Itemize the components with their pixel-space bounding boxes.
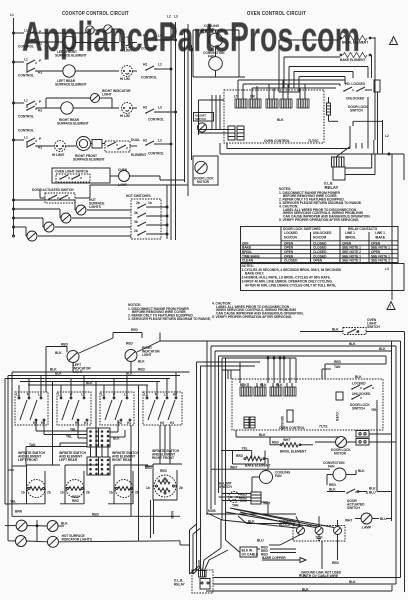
surface element left front (dashed circle): [20, 465, 60, 504]
svg-text:SURFACE ELEMENT: SURFACE ELEMENT: [57, 122, 89, 126]
svg-text:NO/CON: NO/CON: [284, 236, 298, 240]
svg-text:1b: 1b: [21, 491, 25, 495]
svg-text:OVEN: OVEN: [335, 412, 339, 422]
svg-text:L3: L3: [158, 34, 162, 38]
wire oven nested feeds to control box: [238, 80, 345, 92]
indicator light right (rung 3): [46, 89, 131, 108]
svg-text:CONTROL: CONTROL: [141, 76, 157, 80]
heating element bake: [284, 52, 372, 88]
svg-text:BLK: BLK: [55, 372, 62, 376]
svg-text:L2: L2: [158, 63, 162, 67]
oven lamp (bottom): [345, 513, 392, 530]
svg-text:L2: L2: [385, 134, 389, 138]
svg-text:SENSOR: SENSOR: [280, 416, 284, 430]
svg-text:BROIL ELEMENT: BROIL ELEMENT: [342, 41, 368, 45]
wire stubs switch boxes to bus: [19, 372, 176, 398]
svg-text:H2: H2: [173, 393, 177, 397]
wire wht bus: [211, 465, 330, 469]
svg-text:YEL: YEL: [66, 435, 72, 439]
svg-text:1b: 1b: [146, 486, 150, 490]
svg-text:L1: L1: [10, 13, 14, 17]
svg-text:H1: H1: [170, 421, 174, 425]
svg-text:3b: 3b: [134, 211, 138, 215]
svg-text:OV CABLE: OV CABLE: [242, 553, 259, 557]
wire hot-switch bus 1: [14, 200, 132, 210]
infinite switch label left front: [18, 451, 46, 462]
wire connector block link verticals: [91, 447, 109, 457]
svg-text:3. SERVICER PLEASE RETURN DIAG: 3. SERVICER PLEASE RETURN DIAGRAM TO RAN…: [128, 317, 211, 321]
svg-text:BLK: BLK: [138, 360, 145, 364]
svg-text:BROIL ELEMENT: BROIL ELEMENT: [280, 450, 306, 454]
svg-text:HI LIM: HI LIM: [120, 77, 130, 81]
svg-text:H1: H1: [127, 421, 131, 425]
door actuated switch (bottom): [327, 487, 392, 511]
hot surface indicator lights label: [62, 534, 93, 542]
svg-text:CLOSED: CLOSED: [284, 259, 298, 263]
svg-text:UNLOCKED: UNLOCKED: [313, 231, 332, 235]
notes list (top right): [279, 187, 371, 222]
switch control right side rung2 to L2: [141, 63, 172, 80]
svg-text:L3: L3: [158, 106, 162, 110]
wire hot switches right rail: [166, 185, 168, 239]
indicator light right (bottom): [125, 333, 160, 362]
svg-text:H1: H1: [84, 421, 88, 425]
switch control right side rung3 to L3: [143, 106, 177, 122]
indicator light left (bottom): [55, 333, 113, 375]
svg-text:BLK: BLK: [260, 383, 267, 387]
svg-text:TAN: TAN: [334, 365, 341, 369]
svg-text:BLU: BLU: [257, 539, 264, 543]
motor convection fan (bottom): [323, 461, 365, 492]
svg-text:H2: H2: [75, 421, 79, 425]
switch control left-rear (rung 2): [14, 58, 44, 78]
svg-text:CONTROL: CONTROL: [18, 74, 34, 78]
svg-text:SWITCH: SWITCH: [350, 109, 363, 113]
connector pins P1 (top oven control): [234, 92, 261, 108]
svg-text:BLK: BLK: [259, 433, 266, 437]
svg-text:SEE NOTE 3: SEE NOTE 3: [342, 259, 361, 263]
switch hi-limit right rear (rung 3): [120, 103, 137, 119]
wire hot-switch bus 3: [14, 218, 132, 227]
connector pin stack bottom oven control: [244, 417, 255, 428]
indicator light hot 4: [26, 227, 37, 241]
svg-text:CONTROL: CONTROL: [18, 115, 34, 119]
svg-text:RED: RED: [329, 483, 336, 487]
wire MOB label: [206, 502, 296, 524]
svg-text:BAKE ELEMENT: BAKE ELEMENT: [340, 58, 365, 62]
svg-text:LINE 1: LINE 1: [345, 231, 355, 235]
svg-text:MOB: MOB: [208, 509, 216, 513]
svg-text:OVEN: OVEN: [118, 168, 128, 172]
svg-text:UNLOCKED: UNLOCKED: [346, 97, 365, 101]
svg-text:ELEMENT: ELEMENT: [131, 153, 146, 157]
svg-text:LIGHT: LIGHT: [102, 93, 112, 97]
hot surface lights label: [89, 198, 105, 209]
warning triangle top: [390, 37, 398, 46]
heating element left front surface (rung 1): [43, 36, 119, 57]
oven nested wires: [289, 67, 368, 93]
svg-text:BLK: BLK: [277, 118, 284, 122]
svg-text:RED: RED: [332, 561, 339, 565]
svg-text:RED: RED: [334, 360, 341, 364]
svg-text:BLK: BLK: [86, 381, 93, 385]
wire inter-box verticals: [53, 360, 171, 541]
svg-text:RED: RED: [61, 343, 68, 347]
svg-text:RED: RED: [236, 454, 243, 458]
svg-text:H2: H2: [143, 34, 147, 38]
svg-text:FAN: FAN: [328, 465, 335, 469]
svg-text:COOKTOP CONTROL CIRCUIT: COOKTOP CONTROL CIRCUIT: [62, 11, 129, 17]
indicator light hot 1: [75, 200, 86, 215]
wire relay to L3: [385, 154, 404, 300]
svg-text:SWITCH: SWITCH: [195, 117, 206, 121]
svg-text:SEE NOTE 3: SEE NOTE 3: [371, 259, 390, 263]
wires lamps: [5, 513, 190, 546]
bare copper arrow: [262, 556, 306, 563]
svg-text:CONTROL: CONTROL: [18, 45, 34, 49]
svg-text:UNLOCKED: UNLOCKED: [352, 392, 371, 396]
indicator light hot 3: [43, 218, 54, 232]
svg-text:MOB: MOB: [170, 511, 174, 519]
svg-text:RED: RED: [126, 342, 133, 346]
junction dots on L1 rail: [13, 32, 15, 237]
wire relay feed verticals: [190, 362, 261, 574]
switch hi-limit right front (rung 4): [36, 141, 76, 158]
svg-text:MOTOR: MOTOR: [197, 180, 210, 184]
door lock motor (top): [193, 156, 218, 185]
svg-text:WHT: WHT: [230, 465, 237, 469]
svg-text:RED: RED: [138, 368, 145, 372]
svg-text:HI LIMIT: HI LIMIT: [120, 49, 132, 53]
svg-text:LOCKED: LOCKED: [284, 231, 298, 235]
switch control right side rung1 to L3: [141, 34, 177, 51]
wire switch bus lines: [5, 372, 190, 386]
svg-text:2b: 2b: [86, 491, 90, 495]
infinite switch box A: [15, 392, 48, 425]
svg-text:BARE COPPER: BARE COPPER: [262, 556, 286, 560]
svg-text:RELAY: RELAY: [325, 185, 339, 190]
svg-text:H1: H1: [41, 421, 45, 425]
connector block lower: [87, 457, 110, 475]
svg-text:71/7S: 71/7S: [319, 425, 328, 429]
svg-text:H2: H2: [143, 139, 147, 143]
svg-text:MOTOR: MOTOR: [334, 452, 347, 456]
svg-text:H2: H2: [143, 63, 147, 67]
svg-text:CONTROL: CONTROL: [141, 47, 157, 51]
connector pins P2 (top oven control): [266, 92, 292, 122]
motor convection fan 2: [209, 47, 223, 77]
svg-text:RED: RED: [72, 499, 79, 503]
svg-text:3b: 3b: [134, 220, 138, 224]
wire oven control to relay: [220, 97, 375, 154]
indicator light hot 2: [60, 209, 71, 223]
svg-text:YEL: YEL: [70, 428, 76, 432]
wires below terminal block: [257, 535, 339, 570]
svg-text:BLK: BLK: [276, 383, 283, 387]
connector pins P3 (top oven control): [297, 92, 309, 108]
hi-limit switch (oven top): [194, 113, 214, 133]
oven sensor label (bottom box): [280, 410, 339, 430]
infinite switch label left rear: [59, 451, 87, 462]
cable entry box (bottom): [240, 546, 296, 558]
svg-text:1b: 1b: [109, 491, 113, 495]
infinite switch label right rear: [112, 451, 140, 462]
door lock switch (bottom): [322, 360, 377, 492]
switch hi-limit left rear (rung 2): [120, 66, 137, 82]
svg-text:YEL: YEL: [242, 447, 248, 451]
heating element broil: [340, 35, 375, 44]
svg-text:HI LIM: HI LIM: [120, 114, 130, 118]
svg-text:DUAL: DUAL: [131, 138, 140, 142]
oven sensor connector (bottom): [222, 492, 261, 504]
wire BLK below oven control box: [236, 430, 340, 437]
wire left border verticals: [5, 371, 46, 541]
surface element right front dual (dashed circle): [146, 464, 183, 500]
svg-text:BLK: BLK: [126, 372, 133, 376]
hi-limit switch (bottom): [219, 482, 247, 508]
svg-text:71/7SC: 71/7SC: [308, 139, 319, 143]
heating element broil (bottom): [270, 437, 313, 454]
wire right bus verticals: [392, 332, 405, 593]
indicator light LF top row: [30, 26, 100, 34]
wire hot-switch bus 4: [14, 227, 132, 236]
capacitor component (top right): [327, 97, 331, 121]
svg-text:2b: 2b: [47, 491, 51, 495]
oven light switch box: [52, 168, 118, 183]
heating element right front dual (rung 4): [73, 137, 105, 162]
svg-text:SWITCH: SWITCH: [352, 407, 365, 411]
svg-text:BRN: BRN: [15, 510, 23, 514]
svg-text:L3: L3: [174, 15, 178, 19]
svg-text:OVEN CONTROL CIRCUIT: OVEN CONTROL CIRCUIT: [247, 11, 306, 17]
connector pins P5 vertical (top oven control): [228, 126, 244, 140]
svg-text:H2: H2: [33, 421, 37, 425]
relay D.L.B. (bottom): [174, 570, 213, 593]
svg-text:BLK: BLK: [349, 342, 356, 346]
infinite switch box D dual: [143, 392, 182, 425]
table door lock switches / relay contacts: [241, 227, 399, 263]
wire door lock drops (top right): [329, 92, 389, 154]
wire hot-switch bus 2: [14, 209, 132, 218]
svg-text:DR: DR: [250, 95, 255, 99]
terminal block (bottom): [207, 508, 345, 541]
svg-text:RED: RED: [131, 328, 138, 332]
connector block upper: [87, 428, 110, 447]
svg-text:LEFT FRONT: LEFT FRONT: [18, 458, 38, 462]
svg-text:/BROIL: /BROIL: [345, 236, 356, 240]
svg-text:H2: H2: [160, 421, 164, 425]
svg-text:!: !: [392, 40, 393, 46]
oven light switch (bottom): [300, 318, 405, 335]
svg-text:L1: L1: [24, 58, 28, 62]
svg-text:H2: H2: [118, 421, 122, 425]
svg-text:CONTROL: CONTROL: [148, 118, 164, 122]
wires into relay top: [190, 512, 241, 574]
svg-text:BLK: BLK: [379, 347, 386, 351]
svg-text:5. VERIFY PROPER OPERATION AFT: 5. VERIFY PROPER OPERATION AFTER SERVICI…: [212, 315, 292, 319]
svg-text:OVEN CONTROL: OVEN CONTROL: [264, 139, 290, 143]
motor cooling fan (bottom): [252, 469, 291, 492]
wire yel to bake: [221, 447, 252, 459]
door lock switch (top): [343, 80, 380, 113]
svg-text:2b: 2b: [136, 201, 140, 205]
infinite switch label right front: [152, 449, 180, 460]
svg-text:!: !: [390, 305, 391, 311]
svg-text:LEFT REAR: LEFT REAR: [59, 458, 78, 462]
notice text block: [128, 301, 304, 321]
svg-text:RED: RED: [240, 499, 247, 503]
door lock motor (bottom): [283, 437, 356, 456]
svg-text:1b: 1b: [148, 201, 152, 205]
svg-text:DOOR ACTUATED SWITCH: DOOR ACTUATED SWITCH: [32, 188, 74, 192]
wire below switches to connector: [26, 420, 125, 465]
switch control right side rung4 to L2: [143, 139, 172, 156]
svg-text:LT: LT: [234, 95, 238, 99]
connector pins bottom oven control: [240, 383, 296, 396]
svg-text:OVEN LIGHT SWITCH: OVEN LIGHT SWITCH: [55, 170, 89, 174]
wire L2 rail: [170, 22, 172, 240]
svg-text:HOT SWITCHES: HOT SWITCHES: [126, 194, 152, 198]
svg-text:CONTROL: CONTROL: [18, 129, 34, 133]
svg-text:L1: L1: [24, 99, 28, 103]
svg-text:BLK: BLK: [299, 574, 306, 578]
motor cooling fan top: [167, 15, 222, 47]
hot surface indicator lamps (bottom): [16, 520, 27, 531]
hot switches box: [126, 194, 167, 239]
svg-text:2b: 2b: [179, 486, 183, 490]
svg-text:SURFACE ELEMENT: SURFACE ELEMENT: [73, 158, 105, 162]
wire red jumpers (bottom lamps): [46, 328, 190, 372]
svg-text:/BAKE: /BAKE: [375, 236, 386, 240]
motor convection fan label: [203, 51, 225, 59]
svg-text:2b: 2b: [134, 229, 138, 233]
wire relay contacts (top): [345, 140, 404, 175]
svg-text:LIGHT: LIGHT: [142, 353, 152, 357]
wire dual element drops: [151, 500, 175, 538]
svg-text:RIGHT FRONT: RIGHT FRONT: [152, 456, 174, 460]
svg-text:HD. LOCKED: HD. LOCKED: [345, 82, 366, 86]
svg-text:RED: RED: [145, 466, 152, 470]
svg-text:OPEN: OPEN: [313, 259, 323, 263]
wire middle vertical cluster: [207, 341, 240, 520]
door actuated switch: [32, 180, 188, 203]
wire feeds into oven control: [199, 95, 229, 135]
svg-text:HI LIMIT: HI LIMIT: [52, 153, 64, 157]
switch control left-front (rung 1): [14, 29, 44, 49]
wire L1 rail: [13, 18, 15, 236]
svg-text:BLK: BLK: [240, 383, 247, 387]
svg-text:YEL: YEL: [371, 408, 377, 412]
svg-text:LINE 1: LINE 1: [375, 231, 385, 235]
svg-text:BLK: BLK: [61, 522, 68, 526]
svg-text:RIGHT REAR: RIGHT REAR: [112, 458, 133, 462]
warning triangle bottom diagram: [387, 302, 395, 311]
svg-text:1b: 1b: [60, 491, 64, 495]
switch control right-rear (rung 3): [14, 99, 44, 119]
svg-text:BLK: BLK: [329, 488, 336, 492]
oven control dashed box (top): [224, 90, 324, 143]
svg-text:BLK: BLK: [55, 351, 62, 355]
svg-text:BLK: BLK: [302, 588, 309, 592]
infinite switch box C: [100, 392, 134, 425]
svg-text:BLK: BLK: [349, 580, 356, 584]
connector 2x2 blocks (bottom right): [356, 431, 396, 446]
svg-text:TAN: TAN: [232, 504, 239, 508]
svg-text:INDICATOR LIGHTS: INDICATOR LIGHTS: [62, 538, 93, 542]
svg-text:BLU: BLU: [369, 491, 376, 495]
svg-text:L3: L3: [385, 267, 389, 271]
svg-text:L2: L2: [158, 139, 162, 143]
svg-text:2b: 2b: [135, 491, 139, 495]
convection fan frame: [193, 30, 245, 77]
svg-text:L2: L2: [167, 15, 171, 19]
svg-text:H1: H1: [38, 109, 42, 113]
relay D.L.B. connector (top): [332, 147, 351, 168]
svg-text:L1: L1: [24, 136, 28, 140]
switch dual element (rung 4): [105, 138, 146, 157]
switch hi-limit left front (rung 1): [120, 37, 137, 53]
bottom bus lines: [206, 574, 401, 592]
svg-text:TAN: TAN: [29, 443, 36, 447]
svg-text:H2: H2: [143, 106, 147, 110]
svg-text:SURFACE ELEMENT: SURFACE ELEMENT: [55, 54, 87, 58]
svg-text:RED: RED: [272, 441, 279, 445]
svg-text:BLK: BLK: [355, 375, 362, 379]
notes box 2: [241, 264, 405, 291]
svg-text:AFTER 40 MIN. LINE 1/BAKE CYCL: AFTER 40 MIN. LINE 1/BAKE CYCLES ONLY AT…: [245, 284, 336, 288]
ground link note: [301, 571, 342, 579]
svg-text:SWITCH: SWITCH: [347, 506, 360, 510]
svg-text:BLK: BLK: [332, 328, 339, 332]
svg-text:5. VERIFY PROPER OPERATION AFT: 5. VERIFY PROPER OPERATION AFTER SERVICI…: [279, 218, 359, 222]
svg-text:YEL: YEL: [10, 500, 16, 504]
heating element left rear surface (rung 2): [43, 65, 119, 87]
svg-text:L1: L1: [24, 29, 28, 33]
oven power outer box: [279, 37, 375, 97]
wire oven feed rails: [185, 24, 192, 196]
oven lamp: [118, 168, 160, 187]
heating element right rear surface (rung 3): [43, 102, 119, 126]
wire horizontal bus lines upper: [160, 341, 401, 364]
svg-text:FAN: FAN: [208, 28, 215, 32]
svg-text:RED: RED: [160, 469, 167, 473]
wire L3 rail: [175, 22, 177, 240]
svg-text:SWITCH: SWITCH: [219, 485, 232, 489]
svg-text:SWITCH: SWITCH: [367, 325, 380, 329]
indicator light RF top row: [104, 25, 120, 42]
svg-text:LAMP: LAMP: [362, 526, 372, 530]
surface element right rear (dashed circle): [108, 465, 148, 504]
svg-text:WHT: WHT: [283, 438, 290, 442]
oven control dashed box (bottom): [232, 379, 383, 430]
svg-text:BLK: BLK: [358, 469, 365, 473]
wires into bottom oven control from top: [222, 357, 296, 383]
wire element area links: [5, 466, 153, 514]
relay D.L.B. body (top): [324, 167, 345, 190]
svg-text:LIGHTS: LIGHTS: [89, 205, 102, 209]
svg-text:NO/COM: NO/COM: [313, 236, 327, 240]
infinite switch box B: [57, 392, 91, 425]
svg-text:RED: RED: [92, 513, 99, 517]
svg-text:CLEAN: CLEAN: [242, 259, 254, 263]
surface element left rear (dashed circle): [60, 465, 98, 504]
heating element bake (bottom): [233, 451, 271, 470]
svg-text:SURFACE ELEMENT: SURFACE ELEMENT: [55, 83, 87, 87]
svg-text:RELAY: RELAY: [174, 583, 185, 587]
svg-text:CONTROL: CONTROL: [148, 152, 164, 156]
switch control right-front (rung 4): [14, 129, 53, 150]
svg-text:BLU: BLU: [380, 517, 387, 521]
